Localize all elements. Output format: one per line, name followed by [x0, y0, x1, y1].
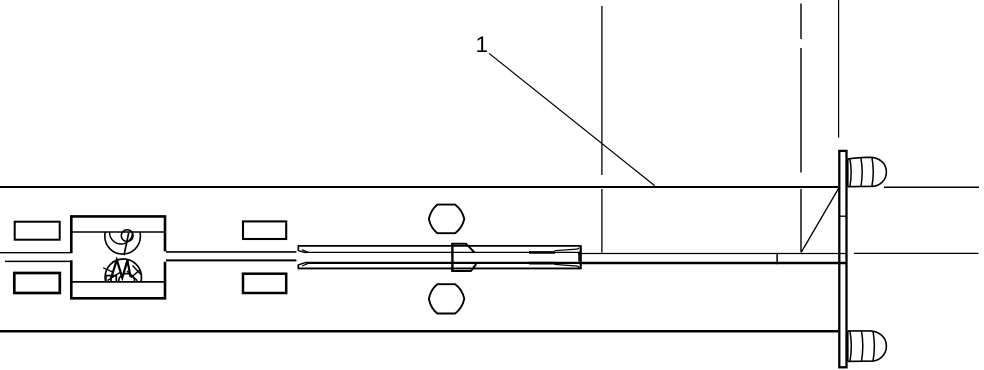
input shaft lower edge: [166, 259, 296, 261]
bolt bottom outline: [848, 331, 887, 362]
left plate bottom: [14, 273, 60, 293]
diagonal strut: [801, 187, 839, 252]
centerline x602: [601, 6, 603, 253]
bearing top slash: [124, 233, 129, 255]
hex nut bottom: [429, 284, 464, 313]
tube outer bottom edge: [298, 267, 580, 269]
rod bottom line in/after tube: [306, 262, 580, 264]
rod joint tick: [776, 253, 778, 264]
pipe bottom edge: [0, 330, 838, 333]
bearing top small roller: [121, 230, 133, 242]
housing inner line lower: [72, 281, 164, 283]
tube left chamfers: [298, 251, 306, 265]
wall flange: [839, 151, 846, 367]
bearing bottom zigzag: [112, 260, 131, 278]
tube right flares: [555, 248, 579, 251]
tube right inner face: [578, 253, 580, 261]
left axis line upper: [0, 252, 70, 254]
centerline x801: [800, 4, 802, 253]
bearing bottom inner arc: [119, 274, 135, 282]
bearing top: [105, 219, 141, 255]
tube left face: [297, 245, 299, 269]
mid plate top: [243, 221, 286, 239]
pipe top edge (left run): [0, 186, 838, 188]
bolt bottom left edge: [847, 331, 849, 362]
leader line: [489, 53, 655, 185]
collar left bar: [451, 243, 453, 272]
bolt top arcs: [850, 157, 873, 186]
pipe top edge (right run): [884, 186, 979, 188]
bearing bottom tail: [103, 268, 113, 273]
rod top line in/after tube: [306, 251, 580, 253]
bolt top left edge: [847, 159, 849, 187]
housing inner line upper: [72, 231, 164, 233]
input shaft upper edge: [166, 251, 296, 253]
left axis line lower: [5, 260, 70, 262]
collar bottom edge: [451, 264, 476, 271]
rod thick segments: [529, 251, 555, 254]
bearing bottom: [105, 259, 141, 295]
centerline x838.6: [838, 0, 840, 138]
tube left inner steps: [302, 250, 309, 266]
bolt top outline: [848, 157, 887, 186]
bearing bottom chords: [108, 266, 142, 281]
bearing bottom cage rects: [106, 276, 116, 282]
collar top edge: [451, 244, 474, 253]
tube outer top edge: [298, 245, 580, 247]
rod line right of flange: [854, 252, 979, 254]
tube right face: [580, 245, 582, 269]
mid plate bottom: [243, 274, 286, 293]
gearbox housing outline: [71, 216, 165, 298]
svg-text:1: 1: [476, 32, 489, 57]
left plate top: [15, 222, 60, 240]
bolt bottom arcs: [850, 331, 874, 361]
flange inner tick: [840, 215, 847, 217]
hex nut top: [429, 205, 464, 234]
